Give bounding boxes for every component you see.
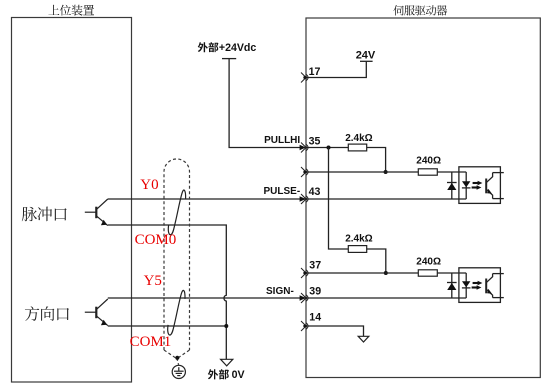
- label 外部+24Vdc: [198, 42, 219, 52]
- opto U1 phototransistor: [486, 173, 504, 199]
- svg-text:37: 37: [309, 260, 321, 272]
- shielded twisted-pair cable (dashed outline): [164, 159, 190, 365]
- svg-text:2.4kΩ: 2.4kΩ: [345, 233, 372, 244]
- wire PULLHI junction down to R2: [329, 148, 349, 250]
- diode D2 (reverse protection): [447, 273, 457, 298]
- svg-text:240Ω: 240Ω: [416, 156, 441, 167]
- svg-text:24V: 24V: [356, 49, 376, 61]
- label 外部 0V: [208, 369, 229, 379]
- pulse cathode rail pin43 to opto1: [306, 198, 466, 200]
- pin 14 wire to internal ground: [306, 326, 364, 336]
- svg-text:43: 43: [309, 186, 321, 198]
- servo drive box 伺服驱动器: [306, 18, 540, 378]
- pin 17: [301, 73, 308, 83]
- external +24Vdc supply rail: [222, 59, 300, 148]
- opto U1 light arrows: [472, 181, 483, 190]
- wire COM1 : Q2 emitter to junction: [108, 325, 227, 327]
- sign cathode rail pin39 to opto2: [306, 297, 466, 299]
- label 脉冲口 (pulse port): [22, 207, 67, 222]
- svg-text:39: 39: [309, 286, 321, 298]
- svg-text:35: 35: [309, 136, 321, 148]
- resistor R2 2.4k: [348, 246, 366, 253]
- pin 35 line with junction: [306, 147, 348, 149]
- resistor R4 240R: [418, 270, 437, 276]
- wire Y5 / SIGN- : Q2 collector to pin 39: [108, 297, 306, 299]
- svg-text:COM0: COM0: [135, 232, 177, 248]
- svg-text:Y0: Y0: [140, 177, 158, 193]
- opto U2 light arrows: [472, 281, 483, 290]
- wire R1 to pulse anode rail: [367, 148, 386, 173]
- internal 24V rail: [306, 61, 373, 77]
- pin 37 (sign anode input): [301, 268, 308, 278]
- svg-text:0V: 0V: [232, 369, 245, 381]
- svg-text:PULLHI: PULLHI: [264, 135, 300, 146]
- resistor R3 240R: [418, 169, 437, 175]
- transistor Q2 (direction output): [85, 299, 108, 326]
- junction COM0/COM1: [224, 324, 228, 328]
- svg-text:2.4kΩ: 2.4kΩ: [345, 133, 372, 144]
- svg-text:PULSE-: PULSE-: [264, 186, 301, 197]
- svg-text:+24Vdc: +24Vdc: [219, 42, 257, 54]
- sign anode rail to opto2: [306, 272, 418, 274]
- svg-text:COM1: COM1: [130, 334, 172, 350]
- transistor Q1 (pulse output): [85, 199, 108, 226]
- twisted pair twist symbol (pair 1): [168, 190, 185, 235]
- cable shield drain node: [175, 356, 179, 360]
- pin 14: [301, 321, 308, 331]
- svg-text:14: 14: [309, 312, 321, 324]
- pin 39 SIGN-: [301, 293, 308, 303]
- pin 43 PULSE-: [301, 194, 308, 204]
- svg-text:240Ω: 240Ω: [416, 256, 441, 267]
- host device box 上位装置: [12, 18, 132, 383]
- wire COM0 : Q1 emitter right then down, hop over SIGN-, join COM1 node, to external 0V arrow: [108, 225, 227, 359]
- pin (pulse anode input): [301, 167, 308, 177]
- wire Y0 / PULSE- : transistor Q1 collector to pin 43: [108, 198, 306, 200]
- svg-text:SIGN-: SIGN-: [266, 286, 294, 297]
- opto U2 phototransistor: [486, 274, 504, 298]
- opto U2 LED: [462, 273, 471, 298]
- opto U1 LED: [462, 172, 471, 199]
- svg-text:17: 17: [309, 66, 321, 78]
- internal ground arrow: [358, 336, 369, 342]
- resistor R1 2.4k: [348, 144, 366, 151]
- diode D1 (reverse protection): [447, 172, 457, 199]
- label 伺服驱动器 (servo drive): [393, 5, 447, 16]
- svg-text:Y5: Y5: [144, 273, 162, 289]
- wire R2 to sign anode rail: [367, 249, 386, 273]
- external 0V arrow: [221, 359, 233, 366]
- protective earth symbol: [172, 365, 185, 378]
- label 方向口 (direction port): [25, 306, 69, 321]
- optocoupler U2: [459, 268, 501, 303]
- pulse anode rail to opto1: [306, 171, 418, 173]
- label 上位装置 (host device): [48, 5, 94, 16]
- optocoupler U1: [459, 167, 501, 204]
- pin 35 PULLHI: [301, 143, 308, 153]
- twisted pair twist symbol (pair 2): [168, 290, 185, 335]
